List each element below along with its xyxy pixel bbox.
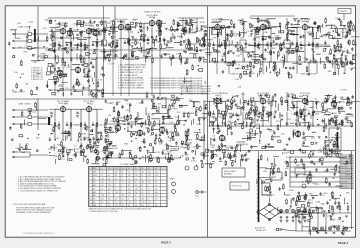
svg-text:1.2K: 1.2K	[115, 168, 118, 170]
svg-text:56K: 56K	[21, 73, 25, 75]
svg-text:R118: R118	[271, 176, 277, 178]
svg-text:1.2K: 1.2K	[108, 168, 111, 170]
svg-text:SELENIUM RECT: SELENIUM RECT	[261, 195, 275, 197]
svg-text:47K: 47K	[213, 38, 217, 40]
svg-text:6SN7: 6SN7	[93, 168, 97, 170]
svg-text:© COPYRIGHT 1951 RADIO SERVICE: © COPYRIGHT 1951 RADIO SERVICE CO	[22, 232, 55, 235]
svg-text:2.2M: 2.2M	[107, 103, 112, 105]
svg-text:6. ADJUST L16: 6. ADJUST L16	[31, 78, 43, 81]
svg-text:68K: 68K	[332, 220, 336, 222]
svg-text:100K: 100K	[286, 157, 291, 159]
svg-text:8. SEE ALIGNMENT NOTES: 8. SEE ALIGNMENT NOTES	[118, 81, 144, 84]
svg-text:TUNER 1/2 OF 6X8: TUNER 1/2 OF 6X8	[144, 12, 161, 14]
svg-text:L12: L12	[247, 31, 250, 33]
svg-text:56K: 56K	[185, 154, 189, 156]
svg-text:56K: 56K	[204, 36, 208, 38]
svg-text:2.2M: 2.2M	[318, 152, 323, 154]
svg-text:1M: 1M	[332, 178, 335, 180]
svg-text:100: 100	[142, 205, 145, 207]
svg-text:1M: 1M	[199, 45, 202, 47]
svg-text:22K: 22K	[117, 115, 121, 117]
svg-text:A W SCOTT: A W SCOTT	[255, 227, 266, 230]
svg-text:2.2M: 2.2M	[282, 211, 287, 213]
svg-text:33K: 33K	[346, 192, 350, 194]
svg-text:47K: 47K	[353, 31, 357, 33]
svg-text:33K: 33K	[141, 28, 145, 30]
svg-text:4.7K: 4.7K	[196, 102, 201, 104]
svg-text:4.7K: 4.7K	[169, 122, 174, 124]
svg-text:33K: 33K	[333, 199, 337, 201]
svg-text:L12: L12	[27, 31, 30, 33]
svg-text:4.7K: 4.7K	[191, 160, 196, 162]
svg-text:TUNER: TUNER	[40, 54, 47, 56]
svg-text:1M: 1M	[108, 115, 111, 117]
svg-text:2.2M: 2.2M	[139, 103, 144, 105]
svg-text:4. LINE VOLTAGE 117 V AC: 4. LINE VOLTAGE 117 V AC	[118, 71, 144, 74]
svg-text:1: 1	[89, 168, 90, 170]
svg-text:47K: 47K	[285, 168, 289, 170]
svg-text:47K: 47K	[157, 97, 161, 99]
svg-text:SCHEMATIC 675B1 ISSUED SEPARAT: SCHEMATIC 675B1 ISSUED SEPARATELY	[16, 211, 52, 214]
svg-text:PAGE 3: PAGE 3	[161, 241, 171, 245]
svg-text:4.7K: 4.7K	[243, 155, 248, 157]
svg-text:TV TUBE CHART: TV TUBE CHART	[120, 163, 137, 166]
svg-text:10. PRODUCTION CHANGE: 10. PRODUCTION CHANGE	[118, 87, 145, 90]
svg-text:1M: 1M	[110, 27, 113, 29]
svg-text:220: 220	[121, 205, 124, 207]
svg-text:4.7K: 4.7K	[98, 80, 103, 82]
svg-text:10K: 10K	[14, 72, 18, 74]
svg-text:15K: 15K	[308, 209, 312, 211]
svg-text:100: 100	[155, 205, 158, 207]
svg-text:470K: 470K	[197, 146, 202, 148]
svg-text:IF IN DOUBT SEE THE SERVICE DA: IF IN DOUBT SEE THE SERVICE DATA	[13, 203, 46, 206]
svg-text:33K: 33K	[308, 34, 312, 36]
svg-text:R118: R118	[81, 134, 87, 136]
svg-text:85: 85	[135, 168, 137, 170]
svg-text:CHAN. 2 INPUT: CHAN. 2 INPUT	[18, 103, 32, 106]
svg-text:C114: C114	[341, 32, 347, 34]
svg-text:56K: 56K	[212, 145, 216, 147]
svg-text:85: 85	[128, 168, 130, 170]
svg-text:2.2M: 2.2M	[229, 122, 234, 124]
svg-text:R207: R207	[167, 152, 173, 154]
svg-text:470K: 470K	[290, 53, 295, 55]
svg-text:6.3: 6.3	[155, 168, 157, 170]
svg-text:120: 120	[90, 104, 93, 106]
svg-text:10K: 10K	[116, 40, 120, 42]
svg-text:R118: R118	[196, 124, 202, 126]
svg-text:22K: 22K	[284, 153, 288, 155]
svg-text:47K: 47K	[263, 171, 267, 173]
svg-text:4.7K: 4.7K	[252, 135, 257, 137]
svg-text:1500: 1500	[315, 114, 319, 116]
svg-text:R207: R207	[221, 56, 227, 58]
svg-text:C114: C114	[25, 46, 31, 48]
svg-text:68K: 68K	[146, 150, 150, 152]
svg-text:R207: R207	[189, 29, 195, 31]
svg-text:10K: 10K	[167, 42, 171, 44]
svg-text:R207: R207	[57, 145, 63, 147]
svg-text:470K: 470K	[271, 48, 276, 50]
svg-text:85: 85	[142, 168, 144, 170]
svg-text:R207: R207	[85, 68, 91, 70]
svg-text:4.7K: 4.7K	[42, 28, 47, 30]
svg-text:12: 12	[89, 205, 91, 207]
svg-text:15K: 15K	[17, 23, 21, 25]
svg-text:47K: 47K	[330, 193, 334, 195]
svg-text:R207: R207	[190, 20, 196, 22]
svg-text:R207: R207	[197, 30, 203, 32]
svg-text:C114: C114	[99, 125, 103, 127]
svg-text:33K: 33K	[228, 63, 232, 65]
svg-text:L 1/2 OF: L 1/2 OF	[108, 64, 115, 66]
svg-text:15K: 15K	[110, 121, 114, 123]
svg-text:33K: 33K	[217, 52, 221, 54]
svg-text:22K: 22K	[244, 69, 248, 71]
svg-text:2.2M: 2.2M	[97, 158, 102, 160]
svg-text:0.1: 0.1	[153, 18, 155, 20]
svg-text:250: 250	[108, 205, 111, 207]
svg-text:TUBE 1/2 6T8 DET: TUBE 1/2 6T8 DET	[300, 74, 317, 76]
svg-text:15K: 15K	[311, 138, 315, 140]
svg-text:85: 85	[148, 205, 150, 207]
svg-text:2.2M: 2.2M	[335, 18, 340, 20]
svg-text:1M: 1M	[25, 84, 28, 86]
svg-text:85: 85	[128, 205, 130, 207]
svg-text:22K: 22K	[33, 62, 37, 64]
svg-text:MODEL 675: MODEL 675	[256, 230, 266, 232]
svg-text:C87: C87	[56, 138, 59, 140]
svg-text:100K: 100K	[76, 125, 81, 127]
svg-text:22K: 22K	[340, 97, 344, 99]
svg-text:R118: R118	[53, 147, 59, 149]
svg-text:4.7K: 4.7K	[315, 184, 320, 186]
svg-text:10K: 10K	[137, 148, 141, 150]
svg-text:85: 85	[148, 168, 150, 170]
svg-text:C114: C114	[28, 22, 34, 24]
svg-text:33K: 33K	[328, 71, 332, 73]
svg-text:15K: 15K	[328, 54, 332, 56]
svg-text:C114: C114	[122, 28, 128, 30]
svg-text:2. CAPACITANCE LESS 1 MF: 2. CAPACITANCE LESS 1 MF	[118, 66, 146, 69]
svg-text:TO GRID: TO GRID	[340, 90, 348, 92]
svg-text:4.7K: 4.7K	[113, 148, 118, 150]
svg-text:7. COILS SHOWN IN ORDER OF CON: 7. COILS SHOWN IN ORDER OF CONNECTION	[18, 190, 58, 192]
svg-text:470K: 470K	[200, 22, 205, 24]
svg-text:33K: 33K	[288, 30, 292, 32]
svg-text:FOCUS COIL: FOCUS COIL	[232, 186, 242, 188]
svg-text:15K: 15K	[238, 87, 242, 89]
svg-text:10K: 10K	[315, 48, 319, 50]
svg-text:100K: 100K	[204, 45, 209, 47]
svg-text:R118: R118	[239, 144, 245, 146]
svg-text:PAGE 4: PAGE 4	[338, 241, 348, 245]
svg-text:4.7K: 4.7K	[122, 24, 127, 26]
svg-text:33K: 33K	[136, 43, 140, 45]
svg-text:CHAN. L INPUT: CHAN. L INPUT	[18, 26, 32, 29]
svg-text:.05: .05	[99, 45, 102, 47]
svg-text:470K: 470K	[87, 54, 92, 56]
svg-text:2.2M: 2.2M	[315, 202, 320, 204]
svg-text:C114: C114	[60, 159, 66, 161]
svg-text:250: 250	[135, 205, 138, 207]
svg-text:10K: 10K	[36, 137, 40, 139]
svg-text:R118: R118	[308, 202, 314, 204]
svg-text:6. CONTROLS AT NORMAL: 6. CONTROLS AT NORMAL	[118, 76, 144, 79]
svg-text:10K: 10K	[240, 38, 244, 40]
svg-text:68K: 68K	[321, 204, 325, 206]
svg-text:1M: 1M	[54, 156, 57, 158]
svg-text:TUBE 1/2 6X8 SOUND IF: TUBE 1/2 6X8 SOUND IF	[230, 74, 252, 76]
svg-text:1.2K: 1.2K	[115, 205, 118, 207]
svg-text:56K: 56K	[309, 194, 313, 196]
svg-text:1500: 1500	[64, 104, 68, 106]
svg-text:10K: 10K	[333, 113, 337, 115]
svg-text:470K: 470K	[289, 190, 294, 192]
svg-text:15K: 15K	[236, 55, 240, 57]
svg-text:250: 250	[121, 168, 124, 170]
svg-text:100K: 100K	[204, 114, 209, 116]
svg-text:R207: R207	[195, 196, 199, 198]
